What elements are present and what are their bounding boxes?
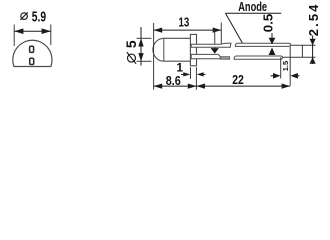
flange right extension line below [195,67,197,90]
small lead-length-difference dim: left vertical [280,57,282,78]
cathode lead stub (gray) [220,57,229,60]
0.5 down arrow [269,38,276,45]
extension line right of 13 [220,23,222,45]
svg-text:0.5: 0.5 [261,13,276,32]
svg-text:13: 13 [179,16,190,30]
0.5 up arrow [269,48,276,56]
arrow left 8.6 [154,84,163,89]
arrow up body dia [138,38,143,46]
22 right extension line [289,47,291,86]
svg-text:1: 1 [176,61,183,75]
svg-text:1.5: 1.5 [281,61,290,71]
svg-text:2.54: 2.54 [306,4,321,36]
arrow left 13 [154,28,163,33]
diameter symbol of label 5.9 [20,12,27,19]
Anode leader line [226,13,243,43]
arrow down body dia [138,53,143,61]
down arrow at cathode lead [211,48,219,54]
arrow right 8.6 [188,84,197,89]
extension line right of 5.9 dim [50,25,52,46]
connector line between lead centerlines [301,45,303,57]
0.5 dimension line above [271,33,273,39]
8.6 dimension line [154,85,197,87]
1 dim right arrow (points left) [197,72,204,76]
arrow right of 5.9 dim [42,28,51,34]
svg-text:5.9: 5.9 [32,10,46,26]
dimension 13 line [154,29,222,31]
2.54 down arrow [310,39,316,46]
LED dome [153,38,164,61]
arrow left 22 [196,84,205,89]
anode lead right segment [235,43,290,46]
dimension line for body dia 5 (vertical) [140,27,142,66]
anode lead centerline extension [291,44,316,46]
flange left extension line below [190,67,192,79]
pointer line to cathode lead step [214,31,216,49]
svg-text:5: 5 [123,40,139,48]
Anode underline [226,12,282,14]
dome-cylinder junction line [163,38,165,61]
small dim left-pointing arrow at right [290,73,298,79]
extension line left of 5.9 dim [13,25,15,47]
arrow left of 5.9 dim [14,28,23,34]
small dim right-pointing arrow at left [273,73,281,79]
22 dimension line [196,85,290,87]
cylinder bottom edge [164,60,191,62]
anode lead (upper): left segment [191,43,231,47]
lead cross-section rect 1 (upper) [30,46,34,52]
extension line top of body [137,37,152,39]
flange [190,34,196,65]
dimension 13: left extension line (shared with 8.6) [153,23,155,90]
lead cross-section rect 2 (lower) [30,58,34,64]
cylinder top edge [164,37,191,39]
dimension line 5.9 [14,30,51,32]
cathode lead centerline extension [283,56,316,58]
cathode lead right segment [234,56,282,59]
2.54 up arrow [310,57,316,64]
extension line bottom of body [137,60,152,62]
svg-text:Anode: Anode [238,0,267,14]
arrow right 13 [213,28,222,33]
1 dim left arrow (points right) [183,72,190,76]
svg-text:22: 22 [232,73,244,87]
2.54 dimension line [312,36,314,65]
cathode lead (lower): left segment [191,54,220,58]
LED body outline (circle with flat bottom) [13,40,52,66]
diameter 5 label (rotated) [123,40,139,64]
arrow right 22 [282,84,291,89]
